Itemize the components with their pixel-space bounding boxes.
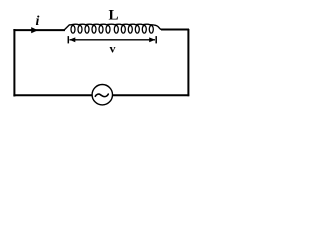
voltage dimension: left arrowhead [69, 37, 75, 42]
svg-text:L: L [109, 8, 119, 24]
voltage dimension: left terminal bar [67, 36, 69, 43]
AC source V1: sine symbol [95, 94, 108, 97]
wire: left vertical [13, 29, 15, 97]
wire: top-left horizontal segment [13, 29, 65, 31]
wire: right vertical [187, 29, 189, 96]
inductor L1 coil [64, 24, 162, 30]
AC source V1: circle [92, 85, 112, 105]
svg-text:v: v [110, 41, 116, 55]
voltage dimension: right arrowhead [149, 37, 155, 42]
svg-text:i: i [36, 14, 40, 29]
wire: bottom-left segment to AC source [13, 94, 92, 96]
wire: bottom-right segment from AC source [113, 94, 189, 96]
voltage dimension: right terminal bar [155, 36, 157, 43]
current arrowhead on top wire [31, 27, 38, 33]
voltage dimension: shaft [70, 39, 156, 41]
wire: top-right horizontal segment [161, 29, 189, 31]
